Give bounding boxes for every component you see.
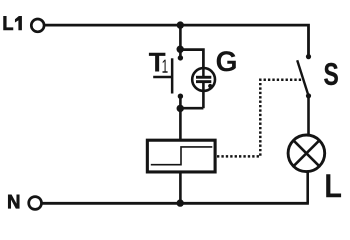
pushbutton T1 actuator <box>153 76 172 79</box>
pushbutton T1 bottom contact <box>178 94 183 99</box>
glow lamp G envelope <box>192 68 215 91</box>
wire lamp bottom lead <box>306 171 309 203</box>
lamp L cross stroke 2 <box>294 140 320 166</box>
terminal N <box>29 197 42 210</box>
mechanical linkage dotted from relay to switch blade <box>217 80 304 157</box>
wire bottom rail from N terminal to lamp corner <box>42 202 309 205</box>
glow lamp gas dot <box>208 84 212 88</box>
glow lamp bottom electrode lead <box>202 83 205 108</box>
wire main from pushbutton bottom contact to relay <box>179 96 182 140</box>
wire main drop to pushbutton top contact <box>179 25 182 58</box>
node junction bottom rail <box>177 199 184 206</box>
lamp L cross stroke 1 <box>294 140 320 166</box>
node junction glow-lamp branch top <box>177 46 184 53</box>
switch S blade <box>297 60 308 96</box>
lamp L envelope <box>288 135 325 172</box>
glow lamp top electrode lead <box>202 68 205 77</box>
wire top rail from L1 terminal to switch corner <box>45 25 309 56</box>
node junction glow-lamp branch bottom <box>177 105 184 112</box>
node junction of top rail and main drop <box>177 21 184 28</box>
wire lamp top lead to switch bottom contact <box>307 96 310 136</box>
impulse relay step symbol <box>151 147 213 165</box>
wire glow-lamp branch bottom <box>180 107 203 110</box>
label L <box>326 174 341 197</box>
label N <box>8 195 19 209</box>
switch S top contact <box>306 54 311 59</box>
glow lamp bottom electrode <box>196 80 211 83</box>
wire glow-lamp branch top <box>180 50 203 69</box>
label S <box>324 63 338 85</box>
glow lamp top electrode <box>196 76 211 79</box>
switch S bottom contact <box>306 93 311 98</box>
wire relay to bottom rail <box>179 172 182 203</box>
label T1 <box>149 53 166 72</box>
pushbutton T1 top contact <box>178 55 183 60</box>
impulse relay box <box>147 140 215 172</box>
terminal L1 <box>31 19 44 32</box>
label L1 <box>4 16 13 30</box>
label G <box>217 51 236 71</box>
pushbutton T1 movable bridge <box>171 58 174 93</box>
